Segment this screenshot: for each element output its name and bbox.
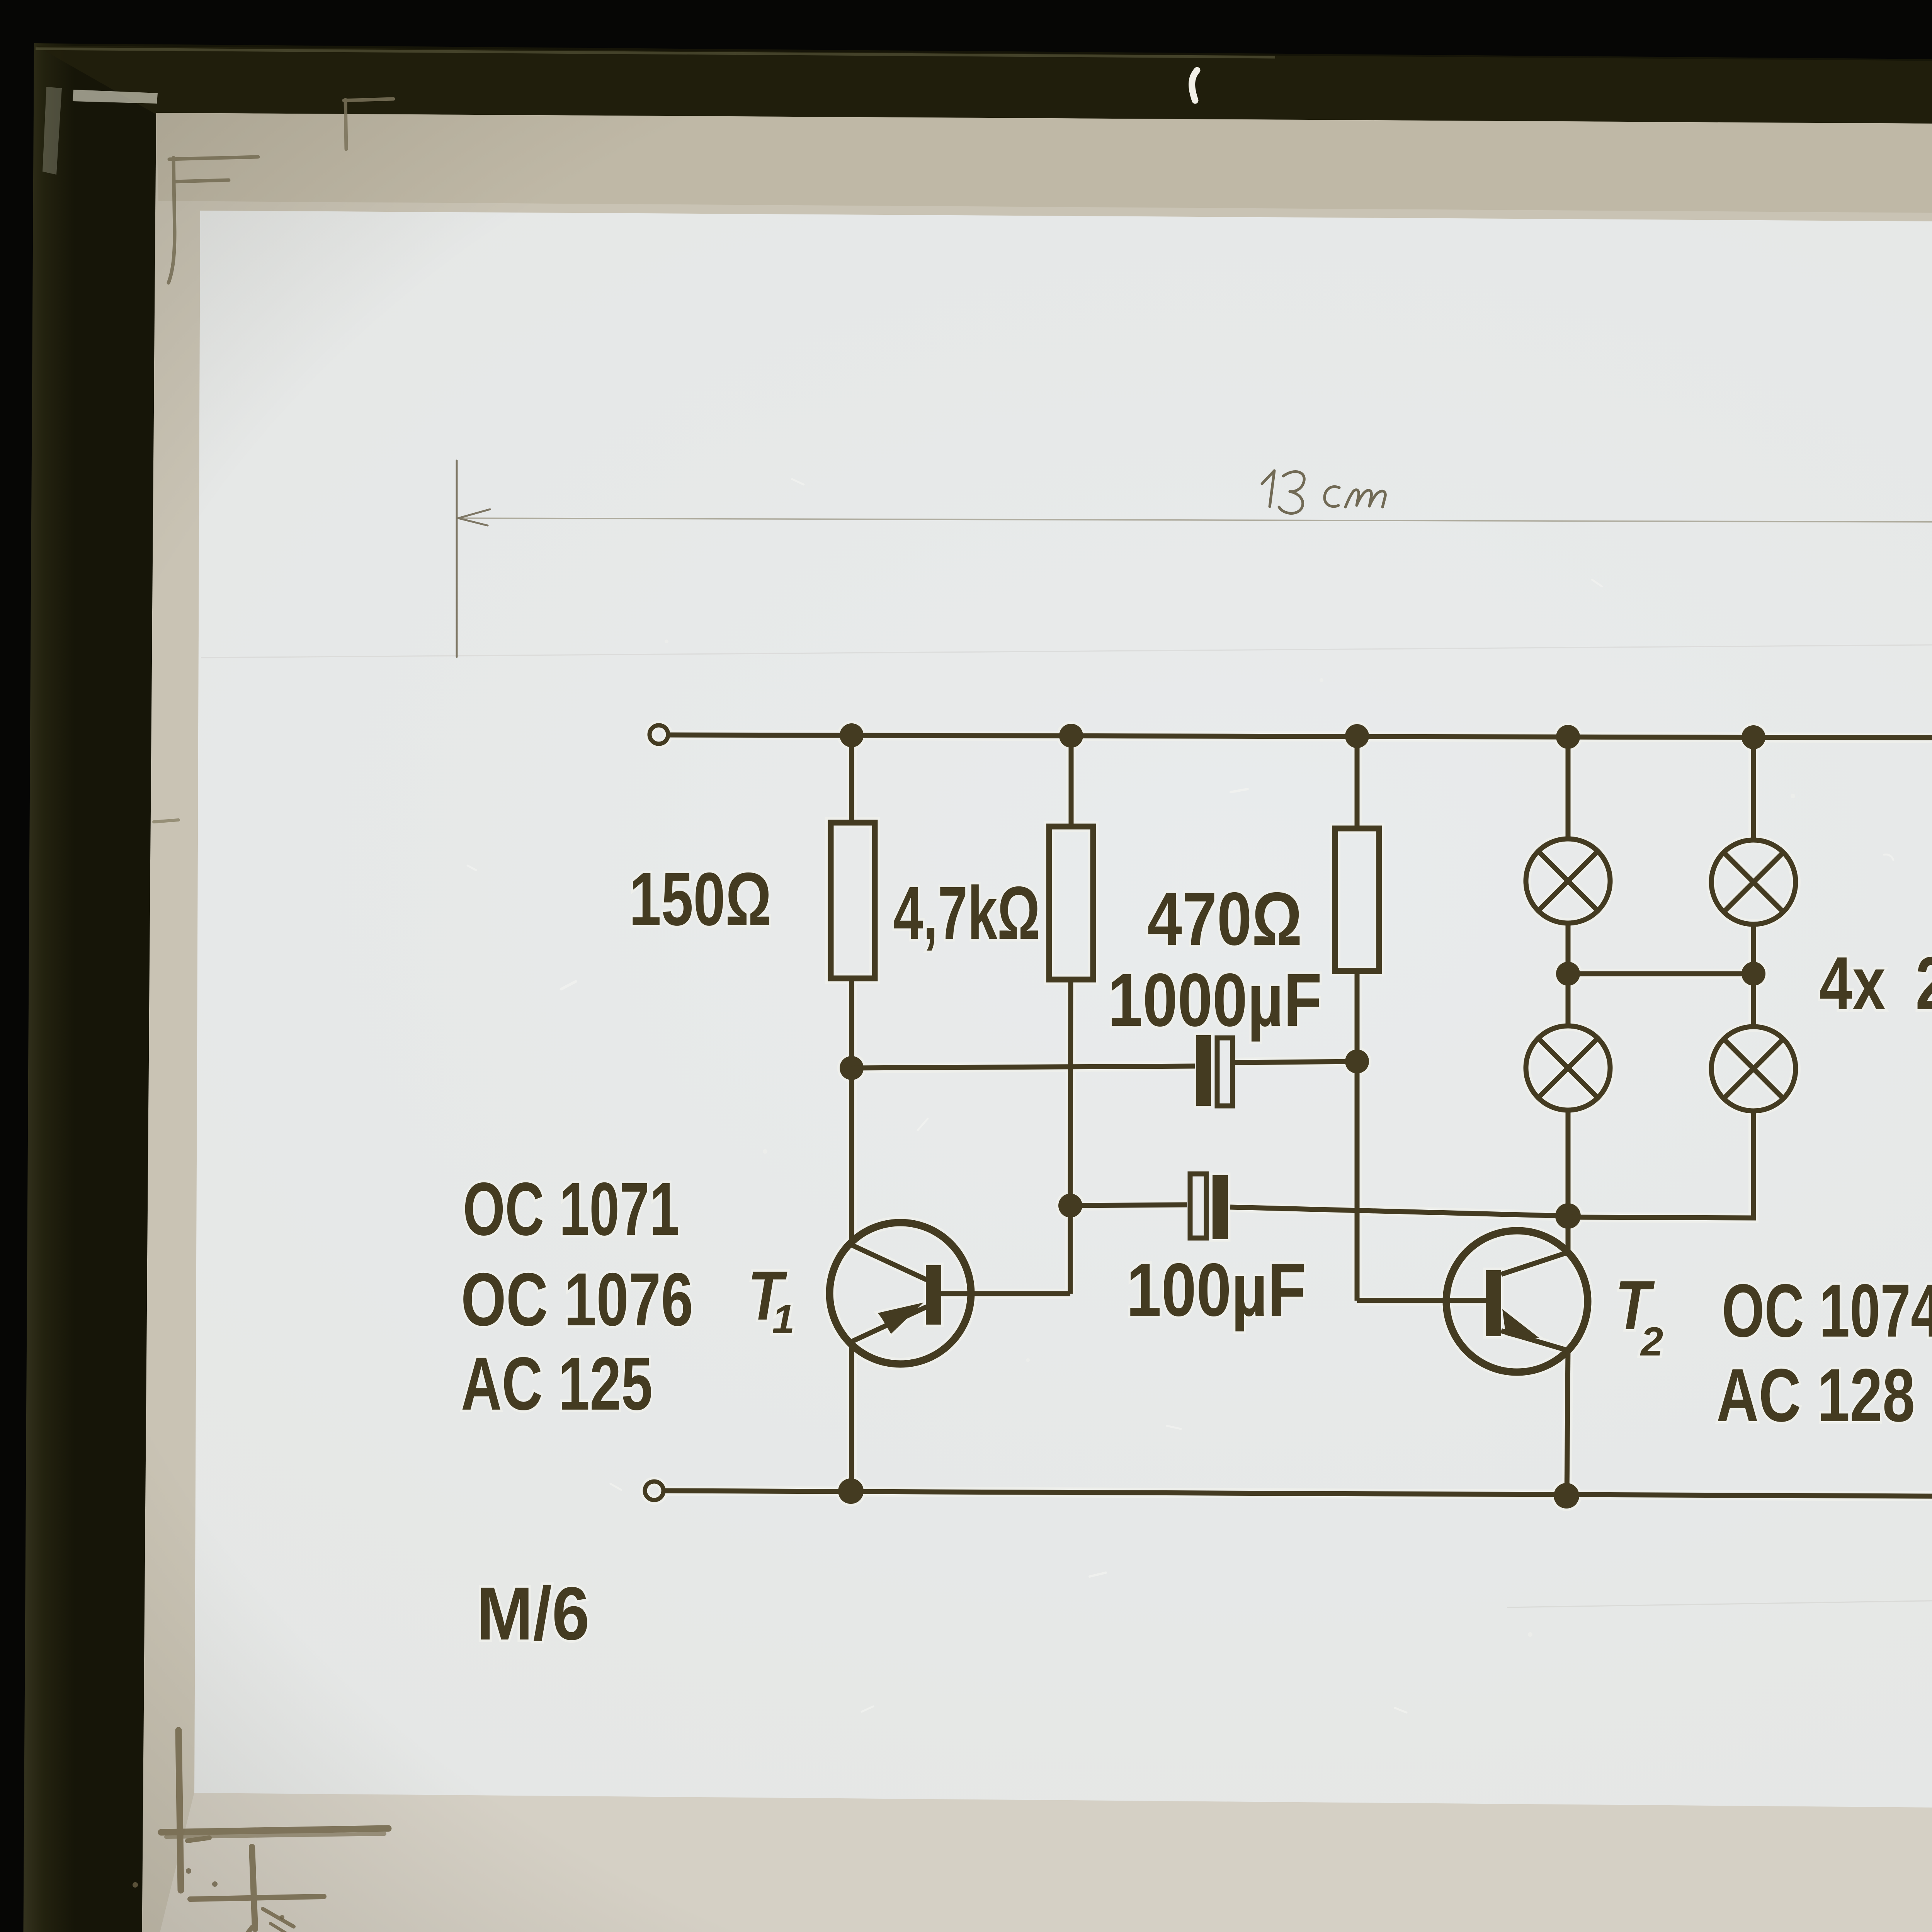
transistor T1 emitter arrow [878,1303,923,1334]
svg-text:470Ω: 470Ω [1147,877,1302,961]
node rail-lamp2 [1742,725,1765,749]
paper margin tints [156,113,1932,217]
wire R3 bottom lead [1355,971,1360,1061]
wire C2 left segment [1070,1205,1187,1206]
wire lamp1 top lead [1566,737,1571,839]
lamp La3 [1526,1026,1610,1110]
wire lamp mid cross [1568,971,1753,976]
wire C2 right segment [1230,1207,1568,1216]
wire lamp1 bottom lead [1566,923,1571,974]
svg-text:2: 2 [1640,1319,1663,1364]
wire lamp2 bottom lead [1751,924,1756,974]
node rail-R1 [840,723,864,747]
svg-text:4,7kΩ: 4,7kΩ [893,871,1040,955]
paper dust and scuffs [468,460,1932,1713]
wire R1 top lead [849,735,854,823]
dimension arrow left [458,509,490,526]
wire lamp2 top lead [1751,737,1756,840]
resistor R2 4.7k [1049,827,1093,980]
transistor T1 emitter diagonal [852,1307,927,1342]
transistor T1 collector diagonal [852,1245,927,1280]
transistor T2 collector diagonal [1501,1252,1568,1274]
bright inner paper [194,211,1932,1812]
node rail-lamp1 [1556,725,1580,749]
node lamp mid right [1742,962,1765,986]
transistor T1 base bar [926,1265,941,1325]
node C1-right / T2 base [1345,1049,1369,1073]
wire T2 base vertical [1355,1061,1360,1301]
wire T2 base horizontal [1357,1298,1486,1303]
wire R2 bottom lead [1070,980,1071,1206]
lamp La4 [1711,1027,1796,1111]
handwritten 13 cm [1262,471,1385,513]
wire T1 collector [849,1068,854,1246]
lamp La2 [1711,840,1796,924]
faint crease [201,641,1932,658]
wire T2 emitter [1567,1349,1568,1496]
transistor T2 body [1446,1231,1588,1372]
wire T2 collector [1566,1216,1571,1254]
svg-text:M/6: M/6 [476,1571,590,1656]
SCHEMATIC TEXT [461,700,1932,1656]
svg-text:150Ω: 150Ω [629,857,772,941]
node lamp mid left [1556,962,1580,986]
terminal top-left [650,725,668,744]
svg-text:AC 125: AC 125 [461,1342,653,1426]
wire lamp4 bottom lead and elbow [1568,1111,1753,1218]
text halo under-layer [461,700,1932,1656]
svg-text:AC 128: AC 128 [1716,1353,1915,1437]
capacitor C2 100uF plate hollow [1190,1174,1206,1238]
transistor T2 emitter diagonal [1501,1331,1568,1350]
wire R3 top lead [1355,736,1360,828]
pencil dots bottom-left [118,1868,284,1932]
halo under-layer [645,723,1932,1509]
node T2 collector [1555,1203,1581,1229]
svg-text:OC 1071: OC 1071 [463,1167,680,1251]
capacitor C2 100uF plate solid [1213,1175,1228,1239]
dimension tick left [456,461,458,657]
node rail-R2 [1059,724,1083,748]
transistor T1 body [830,1223,971,1364]
node rail-T2 emitter [1554,1483,1579,1509]
wire R2 top lead [1069,736,1074,827]
wire bottom rail [664,1491,1932,1497]
dimension line 13cm [458,518,1932,523]
capacitor C1 1000uF plate solid [1196,1035,1211,1106]
pencil tick left edge [154,820,179,822]
white speck top center [1192,70,1197,100]
transistor T2 base bar [1486,1270,1501,1336]
node T1 base / C2 left [1058,1194,1082,1218]
wire lamp4 top lead [1751,974,1756,1027]
svg-text:OC 1076: OC 1076 [461,1257,693,1342]
wire T1 emitter [849,1341,854,1491]
resistor R1 150 ohm [831,823,875,978]
node rail-T1 emitter [838,1478,864,1504]
transistor T2 emitter arrow [1502,1309,1539,1338]
wire lamp3 bottom lead [1566,1110,1571,1216]
pencil corner marks bottom-left [161,1730,388,1932]
svg-text:1: 1 [772,1297,794,1342]
wire T1 base vertical [1068,1206,1073,1294]
pencil mark top-left gamma [344,99,393,149]
svg-text:100µF: 100µF [1126,1248,1306,1332]
node C1-left / T1 collector [840,1056,864,1080]
capacitor C1 1000uF plate hollow [1217,1038,1233,1106]
wire lamp3 top lead [1566,974,1571,1026]
wire R1 bottom lead [849,978,854,1068]
wire top rail [669,735,1932,738]
svg-text:4x 2,5V/100mA: 4x 2,5V/100mA [1819,941,1932,1026]
notch tear top-left border [73,90,158,104]
wire T1 base horizontal [941,1291,1070,1296]
photo border top band tint [36,46,1932,130]
pencil mark top-left E bracket [168,157,258,283]
wire C1 right segment [1235,1061,1357,1063]
photo top edge highlight [36,49,1275,57]
resistor R3 470 ohm [1335,828,1379,971]
svg-text:OC 1074: OC 1074 [1722,1269,1932,1353]
wire C1 left segment [852,1066,1195,1068]
lamp La1 [1526,839,1610,923]
node rail-R3 [1345,724,1369,748]
svg-text:1000µF: 1000µF [1108,958,1322,1042]
terminal bottom-left [645,1481,663,1500]
